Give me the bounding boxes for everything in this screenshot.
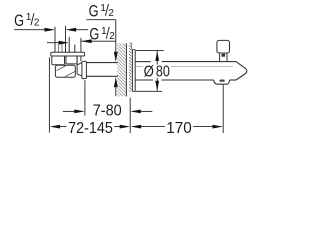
dim 7-80 tail right: [140, 110, 152, 112]
escutcheon rim top step: [132, 48, 135, 50]
label G1/2 #3 text: [89, 25, 115, 44]
svg-text:170: 170: [166, 120, 192, 137]
dim 72-145 line right: [114, 126, 120, 128]
label G1/2 #2 fraction slash: [105, 4, 108, 16]
dim G1/2 pipe lower arrow up: [114, 77, 118, 87]
row B leader arrow: [59, 41, 70, 45]
dim 170 extension line right: [222, 85, 224, 133]
dim 72-145 arrow right: [120, 125, 131, 129]
extension line pipe B: [65, 26, 67, 44]
union flange: [82, 61, 87, 78]
dim 72-145 line left: [60, 126, 67, 128]
spout top line: [135, 61, 236, 63]
finished wall edge line: [131, 43, 133, 50]
label G1/2 #2 leader arrow down at pipe thread: [114, 52, 118, 62]
dim 7-80 arrow left: [130, 110, 141, 114]
svg-text:2: 2: [34, 18, 40, 29]
label G1/2 #2 text: [89, 2, 115, 21]
escutcheon rim left edge: [131, 49, 133, 91]
dim 7-80 extension line left: [84, 80, 86, 115]
dim 170 arrow right: [213, 125, 224, 129]
finished wall hatch band: [129, 43, 132, 92]
label G1/2 #2 leader underline: [87, 19, 116, 21]
dim Ø80 text: [144, 64, 170, 81]
extension line union flange: [80, 38, 82, 61]
svg-text:1: 1: [100, 3, 106, 14]
outlet slot: [219, 80, 224, 82]
diverter knob slot: [222, 54, 226, 57]
union taper top: [77, 63, 82, 65]
svg-text:1: 1: [26, 12, 32, 23]
escutcheon front face: [134, 50, 136, 90]
label G1/2 #1 leader line: [14, 29, 45, 31]
label G1/2 #1 text: [14, 11, 40, 30]
dim Ø80 arrow up: [155, 51, 159, 61]
dim Ø80 bottom extension line: [132, 90, 162, 92]
diverter knob stem: [220, 53, 227, 62]
union cap plate: [51, 52, 85, 56]
wall hatch band: [117, 43, 126, 96]
label G1/2 #2 leader vertical: [115, 20, 117, 54]
svg-text:72-145: 72-145: [68, 120, 113, 137]
dim Ø80 vertical line upper: [156, 51, 158, 65]
label G1/2 #3 underline leader: [81, 40, 116, 42]
inlet pipe B: [69, 37, 75, 52]
label G1/2 #1 leader arrow: [45, 28, 56, 32]
dim Ø80 arrow down: [155, 81, 159, 91]
dim 7-80 arrow right: [74, 110, 85, 114]
svg-text:Ø: Ø: [144, 64, 154, 81]
svg-text:2: 2: [108, 8, 114, 19]
union nut chamfer line 1: [57, 66, 67, 71]
svg-text:1: 1: [101, 26, 107, 37]
label G1/2 #3 underline arrow: [81, 39, 92, 43]
spout tip: [236, 62, 247, 80]
connecting pipe top line: [86, 62, 117, 64]
dim 72-145 arrow left: [50, 125, 61, 129]
svg-text:2: 2: [109, 31, 115, 42]
dim 72-145 extension line left: [48, 57, 50, 132]
label G1/2 #3 upper leader arrow: [66, 28, 77, 32]
union port A body: [52, 56, 65, 65]
wall face line: [125, 43, 127, 96]
row B leader line: [47, 42, 59, 44]
union nut: [55, 65, 75, 77]
label G1/2 #3 fraction slash: [106, 27, 109, 39]
spout highlight line: [136, 66, 233, 68]
inlet pipe A: [55, 44, 66, 53]
diverter knob head: [217, 40, 230, 53]
dim 7-80 extension line right (finished wall): [129, 98, 131, 134]
svg-text:G: G: [14, 11, 24, 30]
outlet mouth: [214, 80, 230, 84]
dim G1/2 pipe lower tail: [115, 85, 117, 96]
dim Ø80 vertical line lower: [156, 78, 158, 91]
connecting pipe bottom line: [86, 75, 117, 77]
dim 170 line left: [141, 126, 165, 128]
escutcheon: [132, 49, 135, 91]
dim 170 line right: [193, 126, 213, 128]
spout bottom line: [135, 79, 236, 81]
dim Ø80 top extension line: [135, 49, 164, 51]
dim Ø80 text halo: [143, 65, 171, 78]
dim 170 arrow left: [131, 125, 142, 129]
label G1/2 #3 upper leader line: [76, 29, 88, 31]
union port B right edge: [76, 56, 78, 74]
svg-text:7-80: 7-80: [93, 103, 122, 120]
union port B body: [66, 56, 77, 64]
extension line pipe A: [54, 27, 56, 44]
svg-text:80: 80: [156, 64, 170, 81]
inlet pipe A inner bore: [59, 44, 62, 53]
union taper bottom: [77, 74, 82, 76]
label G1/2 #1 fraction slash: [31, 13, 34, 25]
svg-text:G: G: [89, 2, 99, 21]
dim 7-80 line left: [63, 110, 75, 112]
union nut chamfer line 2: [65, 71, 75, 77]
